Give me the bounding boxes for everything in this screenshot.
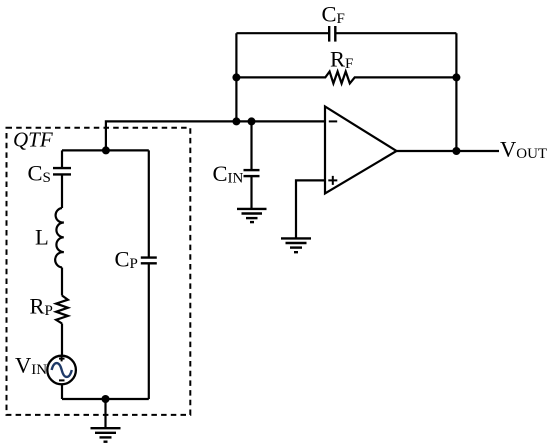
node junction QTF top [102,146,110,154]
svg-text:CF: CF [322,1,345,27]
node junction RF left [232,73,240,81]
wire output [397,150,500,152]
wire right feedback vertical [455,33,457,151]
node junction at CIN tap [248,117,256,125]
wire source to bottom [61,384,63,399]
wire L to RP [61,268,63,296]
ground below QTF [91,428,121,442]
node junction QTF bottom [102,395,110,403]
capacitor CP [115,150,157,399]
source VIN [15,353,76,385]
svg-text:RP: RP [30,294,53,320]
svg-text:CIN: CIN [213,161,244,187]
svg-text:RF: RF [330,47,353,73]
ground below CIN [237,209,267,222]
resistor RF [236,47,456,84]
wire QTF interior top [62,149,149,151]
QTF dashed box [7,128,191,415]
svg-text:VOUT: VOUT [500,136,547,162]
wire QTF interior bottom [62,398,149,400]
svg-text:CP: CP [115,246,138,272]
capacitor CF [236,1,456,41]
capacitor CIN [213,121,260,208]
node junction at feedback tap [232,117,240,125]
wire RP to source [61,324,63,356]
label VOUT [500,136,547,162]
inductor L [35,208,64,268]
svg-text:QTF: QTF [13,128,53,152]
op-amp U1 [325,107,397,194]
node junction RF right [452,73,460,81]
resistor RP [30,294,68,324]
capacitor CS [28,150,72,208]
wire inverting-input net horizontal [106,121,325,150]
svg-text:VIN: VIN [15,353,47,379]
wire left feedback vertical [235,33,237,121]
label QTF [13,128,53,152]
wire QTF to ground [104,399,106,428]
wire non-inverting input [296,180,325,238]
node junction at output [452,147,460,155]
svg-text:CS: CS [28,161,51,187]
ground at op-amp non-inverting input [281,238,311,252]
svg-text:L: L [35,224,49,249]
